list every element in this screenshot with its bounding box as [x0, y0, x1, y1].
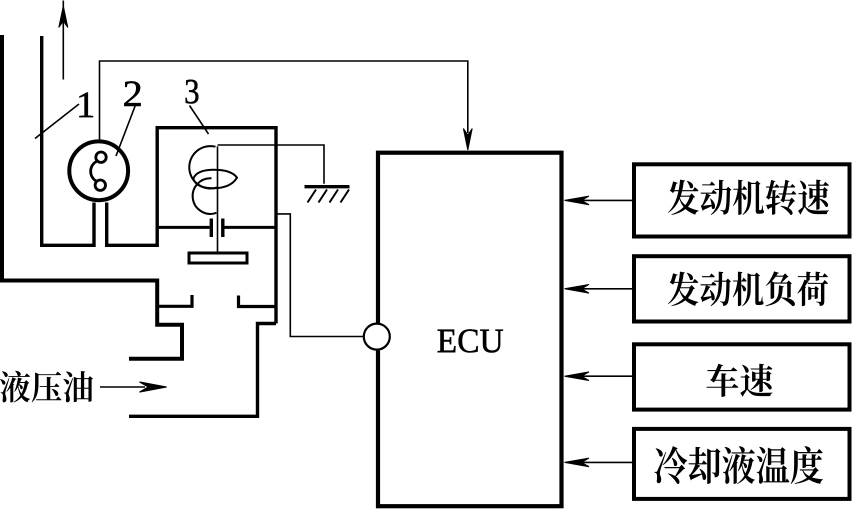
label text "冷却液温度" (coolant temperature)	[654, 446, 823, 484]
solenoid coil core leaf	[193, 170, 237, 189]
wire outer oil pipe (left wall, valve body left)	[2, 35, 182, 359]
wire solenoid to ECU node	[276, 214, 363, 337]
contact right plate	[221, 219, 224, 238]
sensor box engine-load	[634, 256, 850, 321]
ground hatch strokes	[308, 190, 350, 203]
label text "2" (pointer 2)	[124, 81, 140, 106]
label text "1" (pointer 1)	[79, 93, 93, 118]
valve port notch upper-right	[239, 296, 277, 307]
wire coil to ground	[218, 145, 325, 184]
ground bar	[305, 185, 350, 188]
label text "发动机转速" (engine speed)	[668, 180, 829, 215]
pump crank lower pin	[95, 180, 105, 190]
solenoid coil lower loop	[193, 178, 217, 214]
sensor box vehicle-speed	[634, 344, 850, 409]
label text "车速" (vehicle speed)	[706, 364, 772, 397]
contact left lead	[157, 226, 209, 229]
pointer line label 2	[116, 105, 136, 156]
label text "发动机负荷" (engine load)	[668, 271, 828, 306]
solenoid coil upper loop	[189, 146, 217, 188]
label text "3" (pointer 3)	[186, 80, 199, 104]
pump crank link arc	[91, 161, 97, 181]
valve body right lower wall	[129, 324, 276, 417]
sensor box engine-speed	[634, 164, 850, 236]
contact left plate	[210, 219, 213, 238]
label text "ECU" (ECU)	[438, 329, 503, 352]
node circle on ECU left edge	[364, 324, 390, 350]
wire pump right stem / solenoid housing left+top+right	[107, 128, 276, 324]
wire return pipe (second vertical) with pump port	[42, 36, 94, 245]
pump body circle (component 2)	[69, 141, 128, 200]
armature plate	[189, 253, 247, 263]
solenoid armature stem	[217, 146, 219, 251]
arrow engine-load to ECU	[570, 288, 634, 290]
arrow coolant-temp to ECU	[570, 461, 634, 463]
pointer line label 1	[35, 104, 79, 139]
valve port notch upper-left	[157, 295, 192, 306]
arrow outlet flow (up)	[62, 1, 64, 80]
ECU box U1	[378, 153, 562, 507]
arrow engine-speed to ECU	[570, 199, 634, 201]
contact right lead	[225, 226, 277, 229]
arrow hydraulic oil inlet	[100, 386, 145, 388]
label text "液压油" (hydraulic oil)	[0, 371, 93, 403]
sensor box coolant-temp	[634, 429, 850, 499]
pump crank upper pin	[96, 152, 106, 162]
arrowhead into ECU top	[463, 129, 472, 151]
pointer line label 3	[190, 106, 209, 135]
wire pump signal to ECU (up, right, down)	[100, 61, 468, 140]
arrow vehicle-speed to ECU	[570, 375, 634, 377]
